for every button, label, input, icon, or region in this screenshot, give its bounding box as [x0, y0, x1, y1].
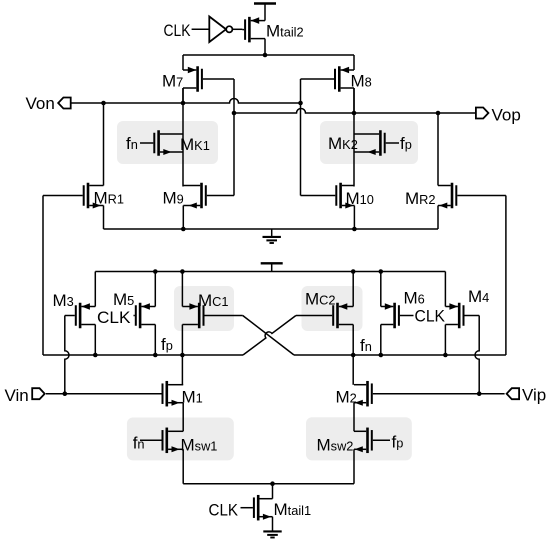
VDD supply bar for dynamic bias stage	[261, 263, 283, 271]
svg-text:MC2: MC2	[305, 290, 336, 309]
svg-text:fn: fn	[126, 134, 138, 153]
svg-text:MR1: MR1	[94, 189, 125, 208]
inverter U1 driving Mtail2 gate	[192, 17, 243, 43]
wire upper ground rail	[104, 228, 439, 230]
transistor Msw1 (NMOS switch, fn)	[140, 428, 183, 484]
transistor MK1 (NMOS cap, fn)	[140, 130, 183, 156]
wire MR1 gate down to fp rail	[42, 196, 44, 356]
highlight box around MC1	[174, 286, 234, 331]
junction M10 source to ground rail	[352, 227, 357, 232]
svg-text:Mtail1: Mtail1	[274, 500, 312, 519]
junction Vop rail / M8 drain column	[352, 111, 357, 116]
transistor Mtail2 (PMOS tail switch, top)	[242, 17, 265, 55]
terminal Vin	[32, 388, 45, 399]
svg-text:MK2: MK2	[328, 134, 358, 153]
junction MC2 drain / M2 drain at fn rail	[351, 353, 356, 358]
junction M6 source to top rail	[379, 269, 384, 274]
svg-text:M8: M8	[351, 72, 372, 91]
wire node fn rail	[294, 354, 506, 356]
wire M4 gate down to Vip (hops fn rail)	[475, 316, 479, 394]
svg-text:fp: fp	[400, 134, 412, 153]
svg-text:fn: fn	[133, 434, 145, 453]
svg-text:M5: M5	[113, 290, 134, 309]
svg-text:M7: M7	[162, 72, 183, 91]
transistor M6 (PMOS, gate CLK)	[381, 272, 414, 356]
wire fp node down to M1 drain	[181, 355, 183, 385]
junction Vip wire / M4 gate line	[477, 391, 482, 396]
svg-text:M3: M3	[53, 291, 74, 310]
junction Von rail / M7 drain column	[181, 101, 186, 106]
transistor M8 (cross-coupled PMOS right)	[301, 55, 355, 113]
wire bottom tail rail	[183, 483, 354, 485]
ground symbol of latch	[263, 229, 281, 243]
wire fn node down to M2 drain	[352, 355, 354, 385]
junction Von rail / M8-M10 gate column	[298, 101, 303, 106]
svg-text:M9: M9	[163, 189, 184, 208]
transistor M9 (cross-coupled NMOS left)	[183, 183, 234, 229]
svg-text:MC1: MC1	[198, 291, 229, 310]
junction M3 drain to fp rail	[93, 353, 98, 358]
highlight box around fn/MK1 switch	[117, 121, 218, 164]
junction MC1 drain / M1 drain at fp rail	[180, 353, 185, 358]
wire M3 gate down to Vin (hops fp rail)	[65, 316, 69, 394]
junction MC1 source to top rail	[180, 269, 185, 274]
transistor MC1 (PMOS cross-coupled)	[182, 272, 242, 356]
wire Vop rail with hop over Von-gate line	[234, 109, 476, 114]
wire left output column M7 drain to M9 drain	[182, 88, 184, 187]
junction MC2 source to top rail	[351, 269, 356, 274]
svg-text:M10: M10	[346, 189, 374, 208]
svg-text:Mtail2: Mtail2	[266, 22, 304, 41]
VDD supply bar for Mtail2	[254, 4, 276, 21]
svg-text:MR2: MR2	[405, 189, 436, 208]
svg-text:fn: fn	[360, 336, 372, 355]
junction Vop rail / M7-M9 gate column	[232, 111, 237, 116]
svg-text:fp: fp	[161, 335, 173, 354]
highlight box around MK2/fp switch	[320, 121, 418, 164]
highlight box around Msw2/fp switch	[306, 417, 412, 460]
wire cross-couple diagonal MC2 gate to fp (hops over other diagonal)	[243, 316, 296, 356]
transistor M2 (NMOS input right)	[354, 381, 505, 431]
junction Mtail1 drain to tail rail	[270, 481, 275, 486]
junction M5 drain to fp rail	[153, 353, 158, 358]
wire VDD rail of latch (Mtail2 drain rail)	[183, 54, 354, 56]
wire gate column M8/M10 (node Von side)	[300, 79, 302, 196]
transistor M1 (NMOS input left)	[46, 381, 183, 431]
svg-text:CLK: CLK	[209, 501, 239, 520]
svg-text:M2: M2	[336, 388, 357, 407]
terminal Vip	[507, 388, 519, 399]
svg-text:M1: M1	[182, 388, 203, 407]
transistor Msw2 (NMOS switch, fp)	[354, 428, 390, 484]
junction Vop rail / MR2 drain	[436, 111, 441, 116]
svg-text:Vip: Vip	[522, 386, 546, 405]
transistor M10 (cross-coupled NMOS right)	[301, 183, 355, 229]
wire top rail of dynamic bias stage	[95, 271, 445, 273]
terminal Von	[58, 98, 70, 109]
terminal Vop	[476, 108, 489, 119]
svg-text:Msw1: Msw1	[181, 435, 218, 454]
junction M9 source to ground rail	[181, 227, 186, 232]
junction Von rail / MR1 drain	[101, 101, 106, 106]
svg-text:M6: M6	[404, 289, 425, 308]
ground symbol at Mtail1 source	[263, 531, 281, 538]
svg-text:Vin: Vin	[5, 386, 29, 405]
junction Vin wire / M3 gate line	[63, 391, 68, 396]
junction M4 drain to fn rail	[443, 353, 448, 358]
highlight box around MC2	[302, 286, 363, 331]
svg-text:MK1: MK1	[180, 135, 210, 154]
wire gate column M7/M9 (node Vop side)	[233, 79, 235, 196]
transistor MR2 (NMOS reset right)	[438, 113, 506, 229]
wire cross-couple diagonal MC1 gate to fn	[243, 316, 294, 356]
junction M6 drain to fn rail	[379, 353, 384, 358]
svg-text:fp: fp	[392, 433, 404, 452]
svg-text:CLK: CLK	[97, 308, 131, 327]
svg-text:CLK: CLK	[415, 306, 446, 325]
transistor MC2 (PMOS cross-coupled)	[296, 272, 353, 356]
transistor MR1 (NMOS reset left)	[43, 103, 104, 229]
wire node fp rail	[43, 354, 243, 356]
junction M5 source to top rail	[153, 269, 158, 274]
wire right output column M8 drain to M10 drain	[353, 88, 355, 187]
transistor M7 (cross-coupled PMOS left)	[183, 55, 234, 103]
transistor M3 (PMOS, gate Vin)	[65, 272, 96, 356]
svg-text:Msw2: Msw2	[317, 435, 354, 454]
transistor MK2 (NMOS cap, fp)	[354, 130, 399, 156]
svg-text:Von: Von	[26, 94, 55, 113]
transistor M5 (PMOS, gate CLK)	[134, 272, 156, 356]
transistor Mtail1 (NMOS tail, bottom)	[241, 484, 273, 531]
svg-text:CLK: CLK	[164, 21, 192, 40]
transistor M4 (PMOS, gate Vip)	[445, 272, 479, 356]
wire MR2 gate down to fn rail	[505, 196, 507, 356]
highlight box around fn/Msw1 switch	[127, 418, 234, 461]
wire Von rail with hop over Vop-gate line	[71, 99, 301, 104]
svg-text:M4: M4	[468, 287, 489, 306]
junction Mtail2 drain to rail	[263, 53, 268, 58]
svg-text:Vop: Vop	[492, 106, 521, 125]
